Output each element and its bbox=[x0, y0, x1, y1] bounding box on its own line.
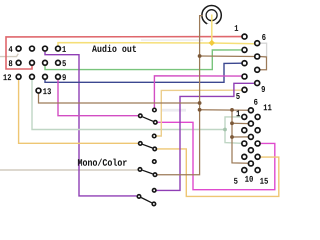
connector J2 DB9 pin 4 bbox=[242, 74, 247, 79]
connector J1 pin 1 bbox=[56, 46, 61, 51]
wire green (pin 6 to DB9 pin 2) bbox=[45, 50, 243, 70]
wire red (pin 7 to DB9 pin 1) bbox=[6, 37, 243, 69]
connector J4 DB15 pin 12 bbox=[255, 128, 260, 133]
wire teal branch to DB15 pin 1 bbox=[225, 117, 242, 130]
connector J4 DB15 pin 4 bbox=[242, 154, 247, 159]
connector J2 DB9 pin 3 bbox=[242, 61, 247, 66]
connector J1 pin 4 bbox=[16, 46, 21, 51]
wire brown branch (to DB15 pin 8) bbox=[232, 136, 249, 138]
switch S1 top throw terminal bbox=[153, 108, 157, 112]
label J1 pin 1 bbox=[62, 46, 66, 52]
connector J4 DB15 pin 14 bbox=[255, 154, 260, 159]
switch S2 lever bbox=[143, 144, 153, 148]
wire orange (pin 12 to switch S2 common) bbox=[19, 80, 138, 143]
junction teal node bbox=[223, 128, 227, 132]
wire blue (pin 10 to DB9 pin 3) bbox=[45, 63, 243, 82]
switch S4 lever bbox=[141, 198, 152, 203]
switch S1 bottom throw terminal bbox=[154, 121, 158, 125]
connector J4 DB15 pin 15 bbox=[255, 168, 260, 173]
label J4 pin 10 bbox=[245, 176, 253, 182]
wire violet (pin 2 to switch S4 common) bbox=[45, 52, 137, 196]
connector J4 DB15 pin 6 bbox=[248, 108, 253, 113]
connector J1 pin 13 bbox=[36, 88, 41, 93]
junction yellow node bbox=[209, 40, 215, 46]
wire grey (left edge to switch S3 common) bbox=[0, 169, 138, 171]
connector J4 DB15 pin 5 bbox=[242, 168, 247, 173]
wire brown branch (pin 13 to brown main) bbox=[39, 93, 200, 103]
label J1 pin 13 bbox=[43, 88, 51, 94]
label J4 pin 5 bbox=[234, 178, 238, 184]
label J2 pin 5 bbox=[236, 93, 240, 99]
connector J4 DB15 pin 10 bbox=[248, 161, 253, 166]
RF connector J3 inner circle bbox=[206, 10, 217, 21]
connector J2 DB9 pin 6 bbox=[255, 41, 260, 46]
label Mono/Color bbox=[78, 159, 127, 166]
wire orange (switch S2 bottom throw to DB15 pin 14) bbox=[157, 149, 279, 197]
wire grey (pin 4 to left edge) bbox=[0, 54, 18, 57]
wire brown branch (to DB15 pin 6) bbox=[200, 109, 249, 111]
wire magenta (switch S1 top throw to DB9 pin 4) bbox=[154, 76, 243, 108]
label J4 pin 1 bbox=[236, 110, 240, 116]
wire yellow (pin 1 to RF center and DB9 pin 6) bbox=[58, 43, 255, 47]
switch S1 lever bbox=[143, 117, 154, 122]
label J1 pin 12 bbox=[3, 74, 11, 80]
label J2 pin 6 bbox=[262, 34, 265, 40]
connector J1 pin 8 bbox=[16, 60, 21, 65]
connector J1 pin 11 bbox=[30, 74, 35, 79]
RF connector J3 (outer shield ring) bbox=[202, 6, 221, 25]
switch S4 bottom throw terminal bbox=[152, 202, 156, 206]
wire brown vertical (DB15 feeds to pin 10) bbox=[232, 110, 249, 163]
connector J2 DB9 pin 9 bbox=[255, 81, 260, 86]
connector J4 DB15 pin 9 bbox=[248, 148, 253, 153]
label J1 pin 4 bbox=[9, 46, 13, 52]
junction brown node E bbox=[230, 121, 234, 125]
switch S4 top throw terminal bbox=[152, 189, 156, 193]
wire brown main (RF shield down to switch S3 bottom throw) bbox=[157, 15, 203, 175]
switch S1 common terminal bbox=[139, 114, 143, 118]
connector J2 DB9 pin 2 bbox=[242, 47, 247, 52]
connector J1 pin 2 bbox=[43, 46, 48, 51]
wire teal (pin 11 to DB15 junction) bbox=[32, 80, 225, 130]
connector J2 DB9 pin 1 bbox=[242, 34, 247, 39]
faint grey artifact line top bbox=[141, 39, 203, 41]
label J4 pin 11 bbox=[264, 104, 272, 110]
connector J4 DB15 pin 1 bbox=[242, 114, 247, 119]
wire yellow vertical to RF connector bbox=[211, 15, 213, 44]
connector J1 pin 10 bbox=[43, 74, 48, 79]
wire brown wrap (DB9 pin 7 to pin 8) bbox=[260, 57, 267, 70]
faint grey artifact line bbox=[161, 109, 186, 112]
label J4 pin 6 bbox=[254, 99, 257, 105]
junction brown node A bbox=[198, 54, 202, 58]
switch S4 common terminal bbox=[137, 195, 141, 199]
wire purple (DB9 pin 9 to switch S4 top throw) bbox=[156, 83, 255, 190]
connector J4 DB15 pin 11 bbox=[255, 114, 260, 119]
junction brown node C bbox=[198, 108, 202, 112]
connector J2 DB9 pin 8 bbox=[255, 67, 260, 72]
switch S3 top throw terminal bbox=[153, 160, 157, 164]
wire magenta (pin 9 to switch S1 common) bbox=[58, 80, 138, 116]
connector J1 pin 5 bbox=[56, 60, 61, 65]
connector J1 pin 7 bbox=[30, 60, 35, 65]
switch S3 common terminal bbox=[138, 168, 142, 172]
wire orange (switch S2 top throw to DB9 pin 5) bbox=[156, 90, 242, 136]
switch S2 common terminal bbox=[139, 142, 143, 146]
connector J2 DB9 pin 5 bbox=[242, 87, 247, 92]
connector J2 DB9 pin 7 bbox=[255, 54, 260, 59]
switch S2 top throw terminal bbox=[152, 134, 156, 138]
label J2 pin 9 bbox=[262, 86, 265, 92]
junction brown node F bbox=[230, 135, 234, 139]
connector J1 pin 6 bbox=[43, 60, 48, 65]
label J4 pin 15 bbox=[260, 178, 268, 184]
connector J1 pin 3 bbox=[30, 46, 35, 51]
connector J4 DB15 pin 8 bbox=[248, 134, 253, 139]
label J1 pin 9 bbox=[62, 74, 65, 80]
connector J4 DB15 pin 2 bbox=[242, 128, 247, 133]
wire brown branch (to DB15 pin 7) bbox=[232, 122, 249, 124]
junction brown node B bbox=[198, 101, 202, 105]
switch S3 lever bbox=[142, 170, 152, 174]
label Audio out bbox=[92, 45, 136, 52]
connector J1 pin 12 bbox=[16, 74, 21, 79]
switch S3 bottom throw terminal bbox=[153, 173, 157, 177]
wire teal branch to DB15 pin 3 bbox=[225, 130, 242, 144]
switch S2 bottom throw terminal bbox=[153, 147, 157, 151]
connector J1 pin 9 bbox=[56, 74, 61, 79]
connector J4 DB15 pin 3 bbox=[242, 141, 247, 146]
wire grey wrap (DB9 pin 6 to pin 7) bbox=[260, 43, 267, 56]
wire magenta (switch S1 bottom throw to DB15 pin 13) bbox=[158, 122, 275, 189]
junction brown node D bbox=[230, 108, 234, 112]
connector J4 DB15 pin 7 bbox=[248, 121, 253, 126]
label J2 pin 1 bbox=[235, 25, 239, 31]
wire brown branch (to DB9 pin 7) bbox=[200, 55, 256, 58]
connector J4 DB15 pin 13 bbox=[255, 141, 260, 146]
label J1 pin 8 bbox=[9, 60, 13, 66]
label J1 pin 5 bbox=[62, 60, 66, 66]
